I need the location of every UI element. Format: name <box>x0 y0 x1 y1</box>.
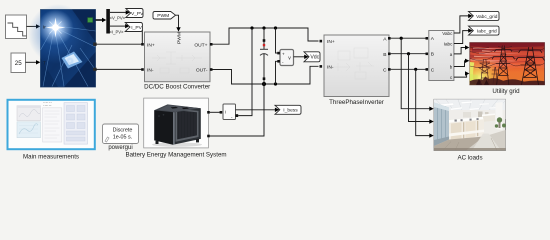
m measurement port badge <box>88 18 93 23</box>
PV array block (solar panel picture) <box>28 4 97 87</box>
wire: constant 25 to PV T input <box>26 60 41 64</box>
goto tag V_PV <box>126 9 144 18</box>
svg-text:PWM: PWM <box>176 32 182 44</box>
node: top rail junctions <box>250 26 277 29</box>
wire: measurement a to utility grid <box>454 45 470 54</box>
wire: phase B branch down to AC loads <box>409 54 434 124</box>
wire: Iabc output to Iabc_grid goto <box>454 28 473 43</box>
wire: PWM from tag down to boost converter PWM port <box>176 15 181 31</box>
powergui block (Discrete 1e-05 s.) <box>103 124 139 144</box>
svg-text:IN-: IN- <box>327 65 334 71</box>
ceiling <box>434 99 506 116</box>
svg-text:IN+: IN+ <box>327 39 335 45</box>
wire: measurement c to utility grid <box>454 71 470 77</box>
DC/DC Boost Converter block U1 <box>145 32 211 82</box>
svg-text:ThreePhaseInverter: ThreePhaseInverter <box>329 99 384 106</box>
electrical port marks on right edge <box>93 43 96 46</box>
far desk row <box>482 115 495 123</box>
far wall <box>449 110 506 119</box>
plants <box>495 117 506 127</box>
svg-text:T: T <box>43 60 46 65</box>
node: bottom rail junctions <box>262 82 277 86</box>
main measurements subsystem (scope screenshots) <box>8 100 95 149</box>
node: phase A tap junction <box>400 37 403 40</box>
capacitor C1 (DC link) <box>260 28 268 84</box>
svg-text:25: 25 <box>15 60 22 67</box>
AC loads block (office interior picture) <box>434 99 506 150</box>
current measurement block i1 <box>220 104 239 120</box>
wire: inverter phase B to measurement B <box>388 53 428 56</box>
svg-text:Ir: Ir <box>43 25 46 30</box>
wire: phase A branch down to AC loads <box>401 38 434 111</box>
svg-text:C: C <box>383 68 387 74</box>
svg-text:B: B <box>431 52 434 58</box>
utility grid block (sunset transmission towers picture) <box>470 43 545 85</box>
wire: boost OUT+ to DC bus top rail and inverter IN+ <box>210 28 322 46</box>
svg-text:Main measurements: Main measurements <box>23 154 79 161</box>
wire: PV m port to bus selector <box>96 18 107 22</box>
wire: BESS - terminal riser to DC bottom rail <box>210 84 264 136</box>
goto tag Iabc_grid <box>469 26 500 35</box>
conductor droop wires <box>470 47 545 68</box>
svg-text:+: + <box>282 52 285 57</box>
svg-text:i: i <box>225 110 226 115</box>
svg-text:Iabc_grid: Iabc_grid <box>477 29 497 35</box>
wire: measurement b to utility grid <box>454 59 470 67</box>
svg-text:Discrete: Discrete <box>113 128 133 134</box>
goto tag I_bess <box>275 105 301 114</box>
svg-text:C: C <box>431 67 435 73</box>
svg-text:PWM: PWM <box>157 13 169 19</box>
front door (right) <box>173 105 201 144</box>
wire: boost OUT- to DC bus bottom rail and inverter IN- <box>210 65 322 84</box>
small tower cluster left-center <box>479 59 500 84</box>
goto tag Vdc <box>304 52 320 62</box>
ThreePhaseInverter block U2 <box>324 35 389 97</box>
top face <box>154 104 201 112</box>
wire: inverter phase A to measurement A <box>388 37 428 40</box>
svg-text:- ---- ---: - ---- --- <box>43 104 51 107</box>
svg-text:IN+: IN+ <box>147 43 155 49</box>
wire: PV - output to boost IN- <box>96 68 144 71</box>
svg-text:B: B <box>383 52 386 58</box>
three-phase V-I measurement block <box>429 31 454 81</box>
svg-text:OUT+: OUT+ <box>194 43 207 49</box>
right ports <box>207 111 210 114</box>
svg-text:Vabc_grid: Vabc_grid <box>476 14 498 20</box>
svg-text:V_PV: V_PV <box>131 11 144 17</box>
from tag PWM <box>153 12 176 20</box>
transmission tower T2 <box>516 47 545 85</box>
svg-text:AC loads: AC loads <box>457 155 482 162</box>
svg-text:<V_PV>: <V_PV> <box>110 16 126 21</box>
feet <box>156 141 159 144</box>
battery energy management system block (cabinet picture) <box>144 98 210 148</box>
goto tag Vabc_grid <box>469 11 500 20</box>
svg-text:IN-: IN- <box>147 68 154 74</box>
white column right <box>496 102 503 130</box>
top cable slots <box>171 107 179 109</box>
svg-text:I_bess: I_bess <box>283 108 298 114</box>
svg-text:DC/DC Boost Converter: DC/DC Boost Converter <box>144 84 210 91</box>
dark horizon silhouette mass <box>470 76 545 84</box>
thumb: panel <box>64 103 88 144</box>
wire: BESS + terminal to current measurement <box>210 111 220 113</box>
wire: current measurement signal to I_bess goto <box>236 108 280 112</box>
transmission tower T1 <box>492 46 515 85</box>
svg-text:Vdc: Vdc <box>310 55 319 61</box>
main desk cluster <box>449 117 484 142</box>
lens flare <box>38 10 74 46</box>
bottom-left sun glow <box>0 0 1 1</box>
thumb: scope 2 <box>17 122 41 138</box>
signal builder (irradiance staircase source) <box>6 15 27 39</box>
wire: PV + output to boost IN+ (with vertical tap stub) <box>96 30 144 46</box>
svg-text:I_PV: I_PV <box>131 25 142 31</box>
svg-text:powergui: powergui <box>108 145 132 151</box>
svg-text:Battery Energy Management Syst: Battery Energy Management System <box>125 151 226 158</box>
side panel (left) <box>154 105 173 144</box>
canvas background <box>0 0 550 166</box>
node: phase C tap junction <box>414 68 417 71</box>
left window wall <box>434 103 449 147</box>
bright reflection diamond <box>62 52 83 69</box>
node: phase B tap junction <box>407 52 410 55</box>
bus selector <box>106 9 110 34</box>
svg-text:Utility grid: Utility grid <box>492 88 520 95</box>
thumb: document <box>43 108 62 142</box>
voltage measurement block v <box>277 50 293 66</box>
pink cloud streaks <box>471 47 524 69</box>
wire: Vdc + measurement stub from top rail <box>276 28 278 53</box>
wire: inverter phase C to measurement C <box>388 68 428 71</box>
wire: phase C branch down to AC loads <box>416 69 434 138</box>
svg-text:Vabc: Vabc <box>442 31 453 36</box>
thumb: scope 1 <box>17 106 41 121</box>
svg-text:Iabc: Iabc <box>444 42 453 47</box>
wire: signal builder to PV Ir input <box>27 24 41 28</box>
svg-text:OUT-: OUT- <box>196 68 208 74</box>
constant block 25 (temperature) <box>11 53 26 73</box>
wire: v output to Vdc goto <box>294 55 309 59</box>
wire: Vabc output to Vabc_grid goto <box>454 14 473 33</box>
floor <box>434 133 506 151</box>
svg-text:1e-05 s.: 1e-05 s. <box>113 135 132 141</box>
wire: current measurement electrical out riser to DC top rail <box>238 28 252 116</box>
goto tag I_PV <box>125 23 142 32</box>
dark top cloud band <box>470 43 545 63</box>
svg-text:<I_PV>: <I_PV> <box>110 29 125 34</box>
wire: Vdc - measurement stub from bottom rail <box>276 61 278 84</box>
wire: bus selector to V_PV goto, signal label <V_PV> <box>110 10 131 20</box>
wire: bus selector to I_PV goto, signal label <I_PV> <box>110 24 130 34</box>
